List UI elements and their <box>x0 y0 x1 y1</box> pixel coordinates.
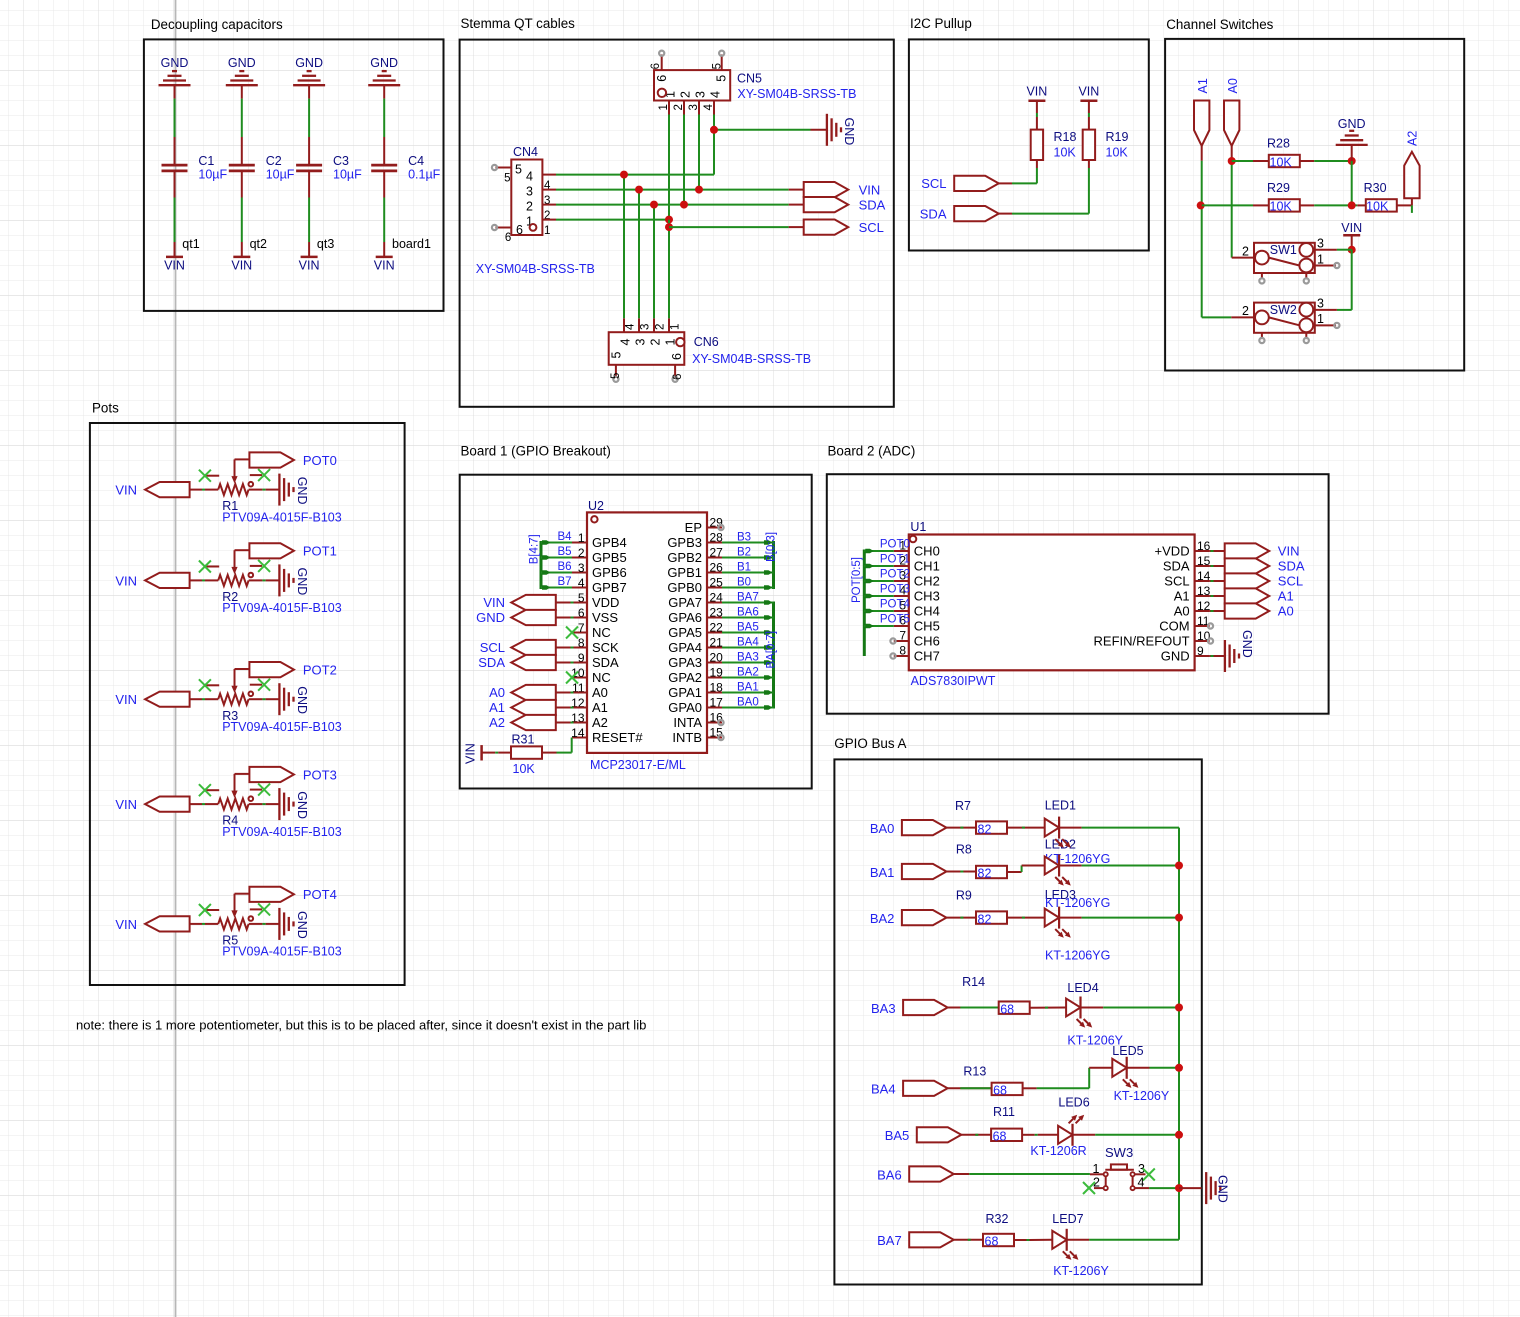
wire A1 to R29 <box>1202 204 1269 206</box>
svg-text:1: 1 <box>670 324 682 330</box>
value PTV09A-4015F-B103 (R3) <box>222 720 342 734</box>
wire SDA row <box>556 204 804 206</box>
junction CN5.2 <box>680 201 688 209</box>
wire CN5.3 drop <box>698 115 700 190</box>
designator U1 <box>910 520 926 534</box>
wire SDA to U2 <box>556 662 587 664</box>
designator R32 <box>986 1212 1009 1226</box>
svg-text:VIN: VIN <box>464 743 478 764</box>
led LED6 <box>1058 1115 1084 1146</box>
wire A0 to U2 <box>556 692 587 694</box>
svg-text:GPA1: GPA1 <box>668 685 702 700</box>
svg-text:SCL: SCL <box>1278 574 1303 589</box>
svg-text:10µF: 10µF <box>266 168 295 182</box>
net label POT1 <box>880 554 910 566</box>
section frame: GPIO Bus A <box>834 736 1202 1284</box>
designator R5 <box>222 934 238 948</box>
svg-text:3: 3 <box>526 185 533 199</box>
svg-text:VIN: VIN <box>115 573 137 588</box>
svg-text:KT-1206Y: KT-1206Y <box>1114 1089 1170 1103</box>
svg-text:SDA: SDA <box>859 197 886 212</box>
pin 9 U1 (GND) <box>1161 644 1210 663</box>
svg-text:INTB: INTB <box>672 730 702 745</box>
wire C2 to VIN <box>241 172 243 257</box>
net port VIN (R4) <box>115 797 189 813</box>
resistor R19 <box>1083 130 1095 160</box>
wire VIN to R3 <box>190 698 219 700</box>
wire VIN to R31 <box>482 752 512 754</box>
svg-text:13: 13 <box>1197 584 1211 598</box>
pin 14 U1 (SCL) <box>1164 569 1210 588</box>
wire LED6 to bus <box>1073 1134 1180 1136</box>
svg-text:2: 2 <box>578 546 585 560</box>
pin 24 U2 (GPA7) <box>668 591 723 610</box>
svg-text:CH5: CH5 <box>914 619 940 634</box>
power flag VIN (channel sw) <box>1341 221 1362 235</box>
wire LED3 to bus <box>1059 917 1179 919</box>
value 10µF (C1) <box>198 168 227 182</box>
value XY-SM04B-SRSS-TB (CN5) <box>737 87 856 101</box>
section frame: Board 2 (ADC) <box>827 444 1329 714</box>
svg-text:POT0: POT0 <box>303 453 337 468</box>
svg-text:10K: 10K <box>513 762 536 776</box>
value 10K (R19) <box>1106 146 1129 160</box>
pin 5 SW1 stub <box>1304 273 1309 284</box>
svg-text:Channel Switches: Channel Switches <box>1166 17 1273 32</box>
pin 1 U1 (CH0) <box>894 539 940 559</box>
ground symbol (C1 column) <box>159 71 191 85</box>
svg-text:Board 2 (ADC): Board 2 (ADC) <box>828 444 916 459</box>
svg-text:2: 2 <box>649 339 663 346</box>
svg-text:VSS: VSS <box>592 610 618 625</box>
junction A1/R29 <box>1197 201 1205 209</box>
wire VIN to R18 <box>1036 101 1038 130</box>
net port BA0 <box>870 820 947 836</box>
svg-text:A1: A1 <box>1278 589 1294 604</box>
svg-text:A0: A0 <box>592 685 608 700</box>
designator SW3 <box>1105 1145 1133 1160</box>
svg-text:23: 23 <box>710 606 724 620</box>
led LED1 <box>1045 817 1071 848</box>
bus label POT[0:5] <box>851 557 863 603</box>
net label GND (channel sw) <box>1338 117 1366 131</box>
wire CN6.4 drop <box>623 175 625 319</box>
net label BA0 (U2) <box>737 697 759 709</box>
svg-text:BA3: BA3 <box>871 1001 896 1016</box>
bus B[4:7] <box>540 541 543 589</box>
junction CN6.3 <box>635 186 643 194</box>
pin 2 U2 (GPB5) <box>572 546 627 565</box>
value 10µF (C2) <box>266 168 295 182</box>
svg-text:B3: B3 <box>737 532 751 544</box>
svg-text:BA5: BA5 <box>737 622 759 634</box>
wire BA3 to R14 <box>948 1007 1001 1009</box>
pin 5 SW2 stub <box>1304 333 1309 343</box>
svg-text:POT0: POT0 <box>880 539 910 551</box>
pin 16 U2 (INTA) <box>673 711 723 730</box>
svg-text:4: 4 <box>619 339 633 346</box>
svg-text:BA4: BA4 <box>737 637 759 649</box>
pin 17 U2 (GPA0) <box>668 696 723 715</box>
designator C3 <box>333 154 349 168</box>
net label B1 <box>737 562 751 574</box>
wire A1 down <box>1201 146 1203 318</box>
ground symbol (C4 column) <box>368 71 400 85</box>
unconnected pin INTB <box>718 735 723 740</box>
ground symbol (R5) <box>279 908 293 940</box>
power flag VIN (C3 column) <box>299 257 320 272</box>
svg-text:U2: U2 <box>588 499 604 513</box>
svg-text:7: 7 <box>899 629 906 643</box>
wire BA1 to R8 <box>946 871 976 873</box>
svg-text:SCL: SCL <box>1164 574 1189 589</box>
wire POT5 <box>864 624 894 629</box>
pin 29 U2 (EP) <box>685 516 724 535</box>
net port SCL (U2) <box>480 640 556 655</box>
wire VIN to R19 <box>1088 101 1090 130</box>
svg-text:26: 26 <box>710 561 724 575</box>
svg-text:GPB6: GPB6 <box>592 565 627 580</box>
svg-text:6: 6 <box>650 63 662 69</box>
net port POT0 <box>249 452 336 468</box>
pin 1 marker U2 <box>591 516 597 522</box>
svg-text:BA1: BA1 <box>737 682 759 694</box>
pin 5 CN5 <box>712 51 729 82</box>
svg-text:25: 25 <box>710 576 724 590</box>
svg-text:PTV09A-4015F-B103: PTV09A-4015F-B103 <box>222 825 342 839</box>
net port A1 <box>1194 78 1210 146</box>
wire R30 to A2 <box>1397 198 1412 205</box>
wire SW3.4 to bus <box>1149 1187 1179 1189</box>
wire BA5 to R11 <box>961 1134 991 1136</box>
resistor R28 <box>1269 155 1300 167</box>
net port VIN (R3) <box>115 692 189 708</box>
svg-text:GPA4: GPA4 <box>668 640 702 655</box>
svg-text:VIN: VIN <box>299 258 320 272</box>
unconnected pin COM <box>1208 623 1213 628</box>
svg-text:1: 1 <box>1317 252 1324 266</box>
pin 4 SW2 stub <box>1259 333 1264 343</box>
svg-text:3: 3 <box>640 324 652 330</box>
svg-text:2: 2 <box>673 104 685 110</box>
wire VIN to R1 <box>190 489 219 491</box>
svg-text:GPB1: GPB1 <box>667 565 702 580</box>
net port POT4 <box>249 887 336 903</box>
capacitor C2 <box>229 165 255 171</box>
svg-text:qt1: qt1 <box>182 237 199 251</box>
svg-text:R8: R8 <box>956 842 972 856</box>
svg-text:I2C Pullup: I2C Pullup <box>910 16 972 31</box>
svg-text:C4: C4 <box>408 154 424 168</box>
junction LED3/bus <box>1175 914 1183 922</box>
designator R7 <box>955 799 971 813</box>
wire R3 to GND <box>249 698 280 700</box>
pin 6 U1 (CH5) <box>894 614 940 634</box>
wire LED7 to bus <box>1067 1239 1179 1241</box>
wire CN6.3 drop <box>638 190 640 319</box>
svg-text:R28: R28 <box>1267 137 1290 151</box>
pin 6 CN5 <box>650 51 669 82</box>
svg-text:A0: A0 <box>1278 604 1294 619</box>
svg-text:POT1: POT1 <box>880 554 910 566</box>
net port SDA (stemma) <box>804 197 886 212</box>
net port BA1 <box>870 864 947 880</box>
no-connect pin 7 U2 <box>566 627 578 639</box>
svg-text:qt3: qt3 <box>317 237 334 251</box>
net label GND (R2) <box>295 568 309 596</box>
designator LED3 <box>1045 888 1076 902</box>
svg-text:KT-1206YG: KT-1206YG <box>1045 896 1110 910</box>
pin 3 CN4 <box>526 185 556 208</box>
svg-text:BA0: BA0 <box>737 697 759 709</box>
pin 1 marker CN5 <box>658 89 666 97</box>
svg-text:R14: R14 <box>962 975 985 989</box>
svg-text:14: 14 <box>571 726 585 740</box>
ground symbol (R4) <box>279 788 293 820</box>
node qt1 <box>182 237 199 251</box>
wire VIN node to SW2.3 <box>1337 250 1352 310</box>
svg-text:A0: A0 <box>489 685 505 700</box>
resistor R13 <box>992 1083 1023 1095</box>
wire B6 <box>541 570 572 575</box>
svg-text:INTA: INTA <box>673 715 702 730</box>
pin 16 U1 (+VDD) <box>1155 539 1211 558</box>
net label B4 <box>558 531 573 543</box>
pin 12 U1 (A0) <box>1174 599 1211 618</box>
no-connect pin (R4 left) <box>199 784 219 796</box>
wire POT4 <box>864 609 894 614</box>
pin 5 CN4 <box>492 163 522 185</box>
wire CN6.2 drop <box>653 205 655 319</box>
resistor R29 <box>1269 199 1300 211</box>
svg-text:B6: B6 <box>558 561 572 573</box>
svg-text:4: 4 <box>526 170 533 184</box>
svg-text:12: 12 <box>1197 599 1211 613</box>
svg-text:R11: R11 <box>993 1105 1015 1119</box>
value PTV09A-4015F-B103 (R4) <box>222 825 342 839</box>
wire R9 to LED3 <box>1007 917 1045 919</box>
net label POT3 <box>880 584 910 596</box>
svg-text:GPB5: GPB5 <box>592 550 627 565</box>
wire A0 down <box>1231 146 1233 258</box>
value 68 (R11) <box>993 1130 1007 1144</box>
svg-text:68: 68 <box>985 1235 999 1249</box>
svg-text:VIN: VIN <box>1278 544 1300 559</box>
capacitor C3 <box>296 165 322 171</box>
pin 3 SW3 <box>1135 1162 1146 1176</box>
net port VIN (R1) <box>115 482 189 498</box>
value 68 (R14) <box>1000 1002 1014 1016</box>
designator R13 <box>963 1064 986 1078</box>
svg-text:VIN: VIN <box>115 917 137 932</box>
wire BA0 to R7 <box>946 827 976 829</box>
pin 3 SW2 <box>1315 297 1337 311</box>
svg-text:2: 2 <box>1242 304 1249 318</box>
svg-text:MCP23017-E/ML: MCP23017-E/ML <box>590 758 686 772</box>
svg-text:15: 15 <box>710 726 724 740</box>
svg-text:VIN: VIN <box>231 258 252 272</box>
svg-text:VIN: VIN <box>483 595 505 610</box>
svg-text:GND: GND <box>295 686 309 714</box>
net label B2 <box>737 547 751 559</box>
net port POT1 <box>249 543 336 559</box>
value KT-1206R (LED6) <box>1030 1144 1086 1158</box>
svg-text:CH1: CH1 <box>914 559 940 574</box>
pin 18 U2 (GPA1) <box>668 681 723 700</box>
wire CN5.2 drop <box>683 115 685 205</box>
svg-text:CN6: CN6 <box>694 335 719 349</box>
wire BA5 (U2) <box>722 630 774 635</box>
bus label B[0:3] <box>765 532 777 562</box>
no-connect pin (R2 right) <box>250 560 270 572</box>
section frame: Channel Switches <box>1165 17 1464 370</box>
svg-text:GPA5: GPA5 <box>668 625 702 640</box>
net port SDA (U1) <box>1225 558 1305 573</box>
pin 7 U1 (CH6) <box>894 629 940 649</box>
capacitor C1 <box>162 165 188 171</box>
bus POT[0:5] <box>863 550 866 657</box>
svg-text:B[4:7]: B[4:7] <box>529 534 541 564</box>
designator C1 <box>198 154 214 168</box>
svg-text:1: 1 <box>578 531 585 545</box>
svg-text:PTV09A-4015F-B103: PTV09A-4015F-B103 <box>222 945 342 959</box>
net label GND (R3) <box>295 686 309 714</box>
svg-text:18: 18 <box>710 681 724 695</box>
svg-text:GND: GND <box>295 791 309 819</box>
pin 1 CN5 <box>658 91 678 115</box>
svg-text:82: 82 <box>978 867 992 881</box>
svg-text:GPB2: GPB2 <box>667 550 702 565</box>
svg-text:GND: GND <box>228 56 256 70</box>
svg-text:U1: U1 <box>910 520 926 534</box>
potentiometer R5 <box>218 894 253 930</box>
pin 9 U2 (SDA) <box>572 651 619 670</box>
pin 2 CN4 <box>526 200 556 223</box>
section frame: Board 1 (GPIO Breakout) <box>460 444 812 789</box>
potentiometer R2 <box>218 550 253 586</box>
designator LED2 <box>1045 838 1076 852</box>
no-connect pin (R3 left) <box>199 679 219 691</box>
svg-text:6: 6 <box>505 232 511 244</box>
svg-text:4: 4 <box>703 104 715 111</box>
ground symbol (stemma) <box>827 114 841 146</box>
net label GND (C1 column) <box>161 56 189 70</box>
net port SCL (i2c) <box>921 176 998 191</box>
value 0.1µF (C4) <box>408 168 441 182</box>
junction LED5/bus <box>1175 1064 1183 1072</box>
wire CN4.4 to CN5.4 <box>556 115 714 175</box>
pin 12 U2 (A1) <box>571 696 608 715</box>
value 10K (R31) <box>513 762 536 776</box>
svg-text:GND: GND <box>295 56 323 70</box>
svg-text:2: 2 <box>1242 244 1249 258</box>
svg-text:NC: NC <box>592 625 611 640</box>
section frame: Pots <box>90 401 405 986</box>
wire BA2 to R9 <box>946 917 976 919</box>
svg-text:3: 3 <box>634 339 648 346</box>
svg-text:16: 16 <box>710 711 724 725</box>
wire node to CN6.1 <box>668 220 670 319</box>
wire BA3 (U2) <box>722 660 774 665</box>
svg-text:A1: A1 <box>489 700 505 715</box>
connector CN6 <box>609 332 685 365</box>
wire GND to C3 <box>308 85 310 164</box>
pin 1 SW2 <box>1315 312 1340 328</box>
pin 2 CN5 <box>673 91 693 115</box>
ground symbol (C3 column) <box>293 71 325 85</box>
svg-text:VIN: VIN <box>115 483 137 498</box>
value 10K (R18) <box>1054 146 1077 160</box>
svg-text:17: 17 <box>710 696 724 710</box>
value PTV09A-4015F-B103 (R5) <box>222 945 342 959</box>
wire A1 to U2 <box>556 707 587 709</box>
svg-text:B0: B0 <box>737 577 751 589</box>
svg-text:GND: GND <box>161 56 189 70</box>
svg-text:2: 2 <box>655 324 667 330</box>
svg-text:NC: NC <box>592 670 611 685</box>
svg-text:4: 4 <box>709 91 723 98</box>
wire U1 to VIN <box>1210 550 1225 552</box>
svg-text:28: 28 <box>710 531 724 545</box>
junction CN5.3 <box>695 186 703 194</box>
svg-text:BA2: BA2 <box>870 911 895 926</box>
svg-text:XY-SM04B-SRSS-TB: XY-SM04B-SRSS-TB <box>692 352 811 366</box>
no-connect pin (R2 left) <box>199 561 219 573</box>
switch SW3 <box>1104 1164 1135 1190</box>
designator R14 <box>962 975 985 989</box>
pin 13 U2 (A2) <box>571 711 608 730</box>
wire LED4 to bus <box>1081 1007 1180 1009</box>
pin 3 CN5 <box>688 91 708 115</box>
wire R2 to GND <box>249 579 280 581</box>
connector CN5 <box>654 70 730 100</box>
pin 5 U2 (VDD) <box>572 591 619 610</box>
svg-text:BA7: BA7 <box>737 592 759 604</box>
net label B6 <box>558 561 572 573</box>
wire R13 jog to LED5 <box>1023 1068 1113 1089</box>
svg-text:ADS7830IPWT: ADS7830IPWT <box>911 674 996 688</box>
wire R11 to LED6 <box>1022 1134 1058 1136</box>
wire BA2 (U2) <box>722 675 774 680</box>
svg-text:SW3: SW3 <box>1105 1145 1133 1160</box>
svg-text:2: 2 <box>679 91 693 98</box>
net label BA5 (U2) <box>737 622 759 634</box>
power flag VIN (C4 column) <box>374 257 395 272</box>
net label GND (R1) <box>295 477 309 505</box>
svg-text:10K: 10K <box>1270 155 1293 169</box>
svg-text:5: 5 <box>712 63 724 69</box>
svg-text:POT5: POT5 <box>880 614 910 626</box>
section frame: Decoupling capacitors <box>144 17 444 311</box>
net port SCL (stemma) <box>804 220 884 235</box>
unconnected pin CH6 <box>890 638 895 643</box>
value XY-SM04B-SRSS-TB (CN6) <box>692 352 811 366</box>
net label GND (C2 column) <box>228 56 256 70</box>
pin 8 U1 (CH7) <box>894 644 940 664</box>
svg-text:10K: 10K <box>1106 146 1129 160</box>
designator R28 <box>1267 137 1290 151</box>
svg-text:PTV09A-4015F-B103: PTV09A-4015F-B103 <box>222 510 342 524</box>
net port BA3 <box>871 1000 948 1016</box>
svg-text:68: 68 <box>1000 1002 1014 1016</box>
svg-text:SW2: SW2 <box>1270 303 1297 317</box>
wire SDA to R19 <box>999 160 1089 214</box>
designator R8 <box>956 842 972 856</box>
svg-text:5: 5 <box>504 173 510 185</box>
net label GND (gpio) <box>1216 1175 1230 1203</box>
svg-text:R31: R31 <box>512 732 535 746</box>
net port BA4 <box>871 1081 948 1097</box>
